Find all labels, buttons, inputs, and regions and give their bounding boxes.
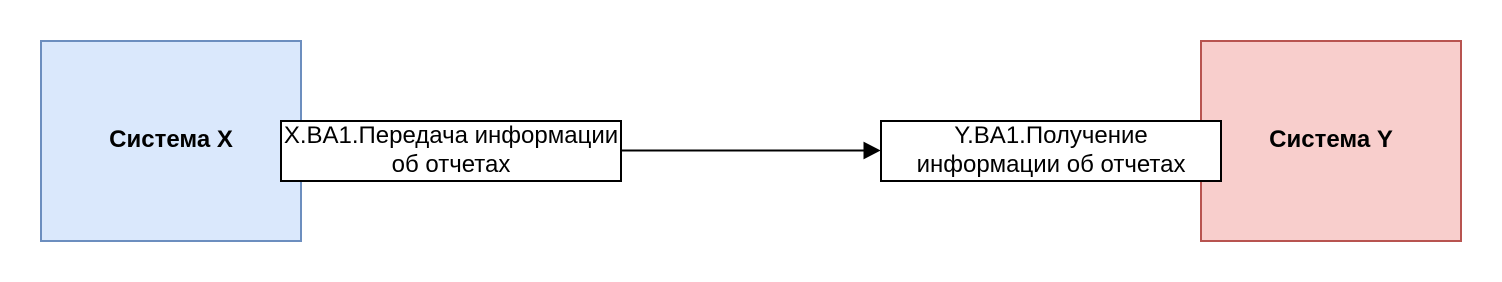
system box Y: [1200, 40, 1462, 242]
process box X.BA1: [280, 120, 622, 182]
system box X: [40, 40, 302, 242]
process box Y.BA1: [880, 120, 1222, 182]
